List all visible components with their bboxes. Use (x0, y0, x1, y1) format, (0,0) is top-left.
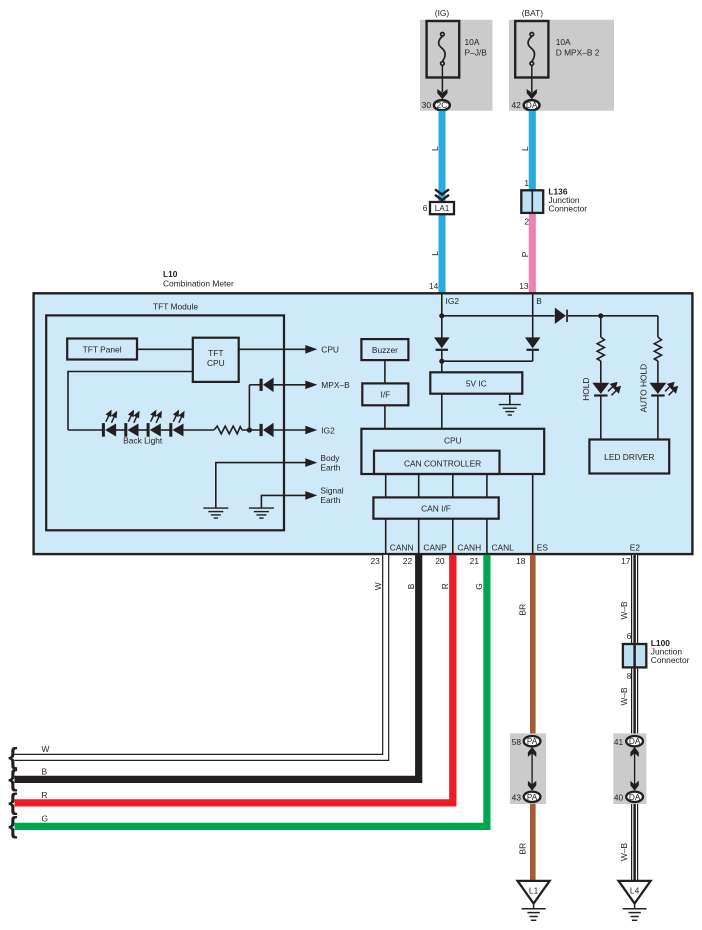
svg-text:30: 30 (422, 100, 432, 110)
svg-text:18: 18 (516, 556, 526, 566)
svg-text:41: 41 (614, 737, 624, 747)
svg-text:17: 17 (621, 556, 631, 566)
svg-text:W: W (373, 582, 383, 590)
svg-text:10A: 10A (465, 37, 480, 47)
svg-text:23: 23 (370, 556, 380, 566)
svg-text:43: 43 (512, 792, 522, 802)
svg-text:MPX–B: MPX–B (321, 380, 350, 390)
svg-text:2: 2 (524, 216, 529, 226)
svg-text:Body: Body (320, 453, 340, 463)
svg-text:CPU: CPU (321, 345, 339, 355)
svg-text:Earth: Earth (320, 462, 340, 472)
svg-text:L1: L1 (529, 886, 539, 896)
svg-text:L10: L10 (163, 269, 178, 279)
svg-text:13: 13 (519, 281, 529, 291)
svg-text:R: R (42, 790, 48, 800)
svg-text:{: { (8, 812, 17, 839)
svg-text:Connector: Connector (548, 204, 587, 214)
svg-text:5V IC: 5V IC (466, 379, 487, 389)
svg-text:CANN: CANN (390, 542, 414, 552)
svg-text:(BAT): (BAT) (522, 8, 543, 18)
svg-text:6: 6 (627, 631, 632, 641)
svg-text:DA: DA (629, 737, 641, 746)
svg-text:8: 8 (627, 671, 632, 681)
svg-text:CPU: CPU (207, 358, 225, 368)
svg-text:W–B: W–B (619, 601, 629, 620)
svg-text:L: L (430, 146, 440, 151)
svg-text:D MPX–B 2: D MPX–B 2 (556, 47, 600, 57)
svg-text:L4: L4 (630, 886, 640, 896)
svg-text:40: 40 (614, 792, 624, 802)
svg-text:L: L (430, 251, 440, 256)
svg-text:B: B (536, 296, 542, 306)
svg-text:ES: ES (537, 542, 549, 552)
svg-text:B: B (406, 583, 416, 589)
svg-text:CAN I/F: CAN I/F (421, 503, 451, 513)
svg-text:1: 1 (524, 178, 529, 188)
svg-text:Back Light: Back Light (123, 436, 163, 446)
svg-text:W: W (42, 744, 50, 754)
svg-text:E2: E2 (630, 542, 641, 552)
svg-text:B: B (42, 766, 48, 776)
svg-text:58: 58 (512, 737, 522, 747)
svg-text:PA: PA (527, 737, 538, 746)
svg-text:P–J/B: P–J/B (465, 47, 488, 57)
svg-text:CANP: CANP (423, 542, 447, 552)
svg-text:42: 42 (511, 100, 521, 110)
svg-text:14: 14 (429, 281, 439, 291)
svg-text:CANH: CANH (457, 542, 481, 552)
svg-text:Earth: Earth (320, 495, 340, 505)
svg-text:I/F: I/F (381, 390, 391, 400)
svg-text:P: P (520, 251, 530, 257)
svg-text:W–B: W–B (619, 842, 629, 861)
svg-text:6: 6 (423, 203, 428, 213)
svg-text:20: 20 (435, 556, 445, 566)
svg-text:CAN CONTROLLER: CAN CONTROLLER (404, 459, 481, 469)
svg-text:TFT: TFT (208, 348, 223, 358)
svg-text:Connector: Connector (651, 655, 690, 665)
svg-text:21: 21 (470, 556, 480, 566)
svg-text:22: 22 (403, 556, 413, 566)
svg-text:R: R (440, 583, 450, 589)
svg-text:DA: DA (629, 793, 641, 802)
svg-text:HOLD: HOLD (581, 378, 591, 401)
svg-text:BR: BR (518, 843, 528, 855)
svg-text:IG2: IG2 (321, 425, 335, 435)
svg-text:2C: 2C (437, 101, 448, 110)
svg-text:LED DRIVER: LED DRIVER (604, 452, 654, 462)
svg-text:LA1: LA1 (435, 204, 450, 213)
svg-text:CPU: CPU (444, 436, 462, 446)
svg-text:AUTO HOLD: AUTO HOLD (639, 364, 649, 413)
svg-text:TFT Module: TFT Module (153, 301, 198, 311)
svg-text:BR: BR (518, 604, 528, 616)
svg-text:G: G (474, 583, 484, 590)
svg-text:Buzzer: Buzzer (372, 345, 398, 355)
svg-text:PA: PA (527, 793, 538, 802)
svg-text:CANL: CANL (492, 542, 515, 552)
svg-text:Combination Meter: Combination Meter (163, 279, 234, 289)
svg-text:Signal: Signal (320, 486, 343, 496)
svg-text:TFT Panel: TFT Panel (83, 344, 122, 354)
svg-text:W–B: W–B (619, 687, 629, 706)
svg-text:(IG): (IG) (435, 8, 450, 18)
svg-text:10A: 10A (556, 37, 571, 47)
svg-text:L: L (520, 146, 530, 151)
svg-text:IG2: IG2 (446, 296, 460, 306)
svg-text:G: G (42, 813, 49, 823)
svg-text:DA: DA (526, 101, 538, 110)
